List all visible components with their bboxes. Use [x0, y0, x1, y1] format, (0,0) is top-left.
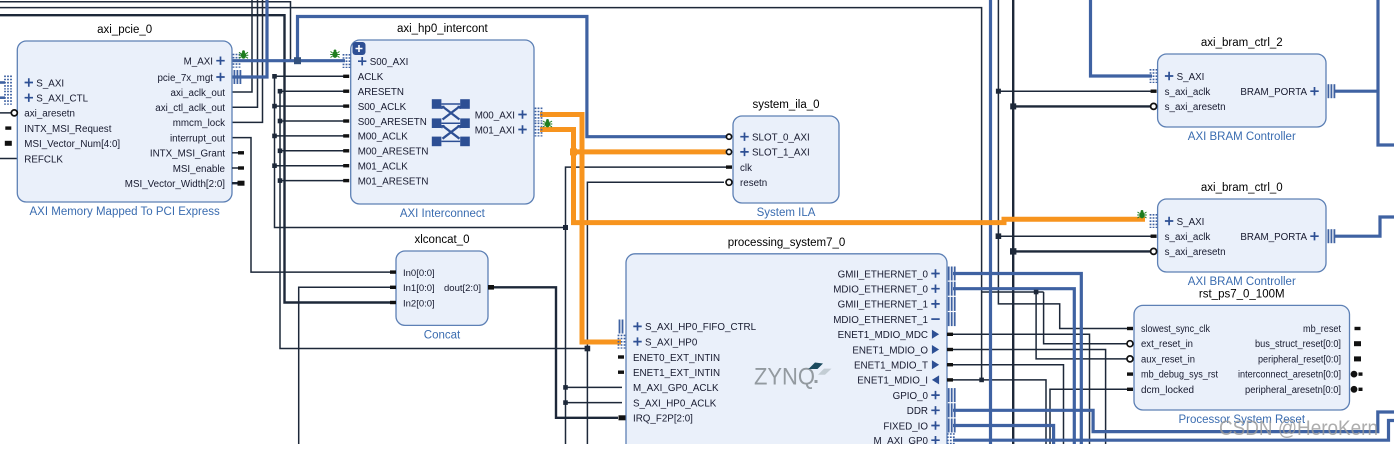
- svg-text:INTX_MSI_Request: INTX_MSI_Request: [24, 124, 111, 135]
- svg-text:In2[0:0]: In2[0:0]: [403, 298, 435, 309]
- block xlconcat_0: [396, 251, 488, 325]
- svg-text:GPIO_0: GPIO_0: [893, 391, 929, 402]
- svg-text:S00_ACLK: S00_ACLK: [358, 102, 407, 113]
- svg-text:AXI Memory Mapped To PCI Expre: AXI Memory Mapped To PCI Express: [30, 206, 220, 218]
- svg-text:S_AXI: S_AXI: [1177, 217, 1205, 228]
- svg-text:INTX_MSI_Grant: INTX_MSI_Grant: [150, 149, 225, 160]
- wire M01_AXI to SLOT_1_AXI and axi_bram_ctrl_0 S_AXI (highlighted orange): [540, 130, 1145, 223]
- svg-text:axi_hp0_intercont: axi_hp0_intercont: [397, 23, 489, 35]
- svg-text:DDR: DDR: [907, 406, 928, 417]
- svg-text:s_axi_aresetn: s_axi_aresetn: [1165, 102, 1226, 113]
- svg-text:resetn: resetn: [740, 178, 767, 189]
- crossbar icon: [432, 99, 442, 109]
- svg-text:M_AXI: M_AXI: [184, 57, 213, 68]
- svg-text:ARESETN: ARESETN: [358, 87, 404, 98]
- wire M00_AXI to S_AXI_HP0 (highlighted orange): [540, 115, 621, 343]
- svg-text:In1[0:0]: In1[0:0]: [403, 283, 435, 294]
- svg-text:SLOT_0_AXI: SLOT_0_AXI: [752, 133, 810, 144]
- svg-text:mmcm_lock: mmcm_lock: [173, 118, 225, 129]
- svg-text:M00_ACLK: M00_ACLK: [358, 132, 409, 143]
- wire M_AXI to S00_AXI and SLOT_0_AXI (interface): [232, 59, 345, 62]
- pin markers system_ila_0: [726, 134, 731, 139]
- svg-text:processing_system7_0: processing_system7_0: [728, 237, 846, 249]
- interface hatch pcie_7x_mgt: [234, 70, 236, 84]
- svg-text:M01_AXI: M01_AXI: [475, 125, 515, 136]
- junction dot MDIO_I net: [979, 378, 984, 383]
- block axi_pcie_0: [17, 41, 232, 202]
- svg-text:AXI BRAM Controller: AXI BRAM Controller: [1188, 276, 1296, 288]
- svg-text:clk: clk: [740, 163, 752, 174]
- wire S_AXI left edge (interface): [0, 81, 5, 84]
- svg-text:BRAM_PORTA: BRAM_PORTA: [1240, 232, 1307, 243]
- svg-text:M00_AXI: M00_AXI: [475, 110, 515, 121]
- svg-text:M01_ACLK: M01_ACLK: [358, 162, 409, 173]
- ZYNQ logo: [754, 363, 832, 391]
- pin nubs interconnect: [343, 75, 349, 78]
- svg-text:System ILA: System ILA: [757, 207, 816, 219]
- svg-text:xlconcat_0: xlconcat_0: [415, 234, 470, 246]
- wire DDR (interface): [953, 410, 1394, 431]
- svg-text:MSI_enable: MSI_enable: [173, 164, 226, 175]
- pin markers bram0: [1151, 235, 1157, 238]
- svg-text:M_AXI_GP0_ACLK: M_AXI_GP0_ACLK: [633, 383, 719, 394]
- wire pcie mmcm_lock up (thin): [232, 0, 263, 122]
- wire ENET1_MDIO_O down (thin): [953, 350, 1106, 445]
- svg-text:aux_reset_in: aux_reset_in: [1141, 354, 1195, 365]
- wire net clock distribution FCLK (thin): [275, 76, 566, 444]
- wire ENET1_MDIO_MDC down (thin): [953, 334, 1090, 444]
- wire pcie axi_aclk_out up (thin): [232, 0, 252, 92]
- wire pcie axi_ctl_aclk_out up (thin): [232, 0, 258, 107]
- svg-text:AXI Interconnect: AXI Interconnect: [400, 208, 486, 220]
- svg-text:ext_reset_in: ext_reset_in: [1141, 339, 1193, 350]
- svg-text:S_AXI_HP0: S_AXI_HP0: [645, 337, 698, 348]
- svg-text:MDIO_ETHERNET_0: MDIO_ETHERNET_0: [833, 285, 928, 296]
- svg-text:M_AXI_GP0: M_AXI_GP0: [874, 436, 929, 444]
- block rst_ps7_0_100M: [1134, 305, 1350, 410]
- wire net peripheral_aresetn distribution (vector): [1012, 0, 1014, 444]
- svg-text:axi_aresetn: axi_aresetn: [24, 109, 75, 120]
- block axi_bram_ctrl_0: [1158, 199, 1326, 272]
- wire BRAM_PORTA ctrl2 (interface): [1334, 90, 1378, 93]
- wire pcie interrupt_out to xlconcat In0 (thin): [232, 138, 392, 273]
- svg-text:BRAM_PORTA: BRAM_PORTA: [1240, 87, 1307, 98]
- svg-text:peripheral_aresetn[0:0]: peripheral_aresetn[0:0]: [1245, 385, 1341, 396]
- block processing_system7_0: [626, 254, 947, 449]
- hatches ZYNQ right interfaces: [948, 267, 950, 281]
- svg-text:S_AXI_CTL: S_AXI_CTL: [36, 94, 88, 105]
- svg-text:ACLK: ACLK: [358, 72, 384, 83]
- wire M_AXI_GP0 (interface): [953, 421, 1394, 441]
- svg-text:system_ila_0: system_ila_0: [752, 99, 819, 111]
- svg-text:MDIO_ETHERNET_1: MDIO_ETHERNET_1: [833, 315, 928, 326]
- wire REFCLK stub to left edge (thin): [0, 158, 24, 160]
- wire net top line 1 (thin): [0, 2, 291, 61]
- svg-text:GMII_ETHERNET_1: GMII_ETHERNET_1: [838, 300, 928, 311]
- wire FIXED_IO (interface): [953, 426, 1054, 445]
- svg-text:axi_pcie_0: axi_pcie_0: [97, 24, 152, 36]
- junction dots clock net: [272, 74, 277, 79]
- wire net reset distribution aresetn (thin): [280, 91, 587, 444]
- svg-text:axi_bram_ctrl_0: axi_bram_ctrl_0: [1201, 182, 1283, 194]
- block system_ila_0: [733, 116, 839, 203]
- pin markers ps7: [620, 320, 623, 334]
- svg-text:slowest_sync_clk: slowest_sync_clk: [1141, 324, 1211, 335]
- svg-text:S_AXI_HP0_FIFO_CTRL: S_AXI_HP0_FIFO_CTRL: [645, 322, 757, 333]
- wire net top line to ENET1_MDIO_I (thin): [0, 8, 982, 380]
- svg-text:Concat: Concat: [424, 329, 461, 341]
- wire pcie_7x_mgt up (interface): [232, 0, 267, 77]
- svg-text:AXI BRAM Controller: AXI BRAM Controller: [1188, 131, 1296, 143]
- svg-text:M01_ARESETN: M01_ARESETN: [358, 176, 429, 187]
- junction dots bram aclk net: [996, 89, 1001, 94]
- svg-text:GMII_ETHERNET_0: GMII_ETHERNET_0: [838, 269, 929, 280]
- junction dots ext/aux reset net: [1034, 290, 1039, 295]
- svg-text:ENET1_MDIO_MDC: ENET1_MDIO_MDC: [838, 330, 928, 341]
- junction M_AXI branch: [294, 57, 301, 64]
- wire ENET1_MDIO_T down (thin): [953, 365, 1064, 444]
- block axi_hp0_intercont: [351, 40, 534, 204]
- svg-text:axi_ctl_aclk_out: axi_ctl_aclk_out: [155, 103, 225, 114]
- svg-text:ENET1_MDIO_O: ENET1_MDIO_O: [852, 345, 928, 356]
- svg-text:mb_reset: mb_reset: [1303, 324, 1341, 335]
- svg-text:bus_struct_reset[0:0]: bus_struct_reset[0:0]: [1255, 339, 1341, 350]
- svg-text:S_AXI_HP0_ACLK: S_AXI_HP0_ACLK: [633, 398, 717, 409]
- wire axi_aresetn to left edge (thin): [0, 112, 21, 114]
- wire to axi_bram_ctrl_2 S_AXI (interface): [1091, 0, 1153, 76]
- svg-text:dout[2:0]: dout[2:0]: [444, 283, 481, 294]
- wire vertical interface bus x990 (interface): [989, 0, 992, 444]
- pin nubs xlconcat: [390, 270, 396, 273]
- interface hatch M00_AXI M01_AXI: [535, 108, 537, 122]
- interface hatch S00_AXI: [343, 54, 345, 68]
- svg-text:MSI_Vector_Width[2:0]: MSI_Vector_Width[2:0]: [125, 179, 225, 190]
- pin markers axi_pcie_0: [11, 110, 17, 116]
- svg-text:REFCLK: REFCLK: [24, 154, 63, 165]
- svg-text:CSDN @HeroKern: CSDN @HeroKern: [1219, 417, 1378, 440]
- svg-text:ENET1_EXT_INTIN: ENET1_EXT_INTIN: [633, 368, 720, 379]
- wire dcm_locked (thin): [1050, 389, 1129, 444]
- pin markers bram2: [1151, 90, 1157, 93]
- svg-text:MSI_Vector_Num[4:0]: MSI_Vector_Num[4:0]: [24, 139, 120, 150]
- pin markers rst_ps7: [1127, 327, 1133, 330]
- svg-text:peripheral_reset[0:0]: peripheral_reset[0:0]: [1258, 354, 1341, 365]
- interface hatch M_AXI: [233, 54, 235, 68]
- wire MDIO_ETHERNET_0 (interface): [953, 289, 1074, 444]
- wire xlconcat In1 from bottom (thin): [299, 287, 392, 444]
- svg-text:SLOT_1_AXI: SLOT_1_AXI: [752, 148, 810, 159]
- svg-text:axi_bram_ctrl_2: axi_bram_ctrl_2: [1201, 37, 1283, 49]
- wire net top line 3 to xlconcat In2 (vector): [0, 15, 392, 302]
- svg-text:s_axi_aclk: s_axi_aclk: [1165, 87, 1211, 98]
- svg-text:ENET1_MDIO_T: ENET1_MDIO_T: [854, 361, 928, 372]
- svg-text:S00_AXI: S00_AXI: [370, 57, 409, 68]
- expand icon: [353, 42, 366, 55]
- svg-text:In0[0:0]: In0[0:0]: [403, 268, 435, 279]
- svg-text:mb_debug_sys_rst: mb_debug_sys_rst: [1141, 370, 1218, 381]
- junction dots reset net: [278, 89, 283, 94]
- svg-text:pcie_7x_mgt: pcie_7x_mgt: [157, 73, 213, 84]
- svg-text:M00_ARESETN: M00_ARESETN: [358, 147, 429, 158]
- svg-text:IRQ_F2P[2:0]: IRQ_F2P[2:0]: [633, 414, 693, 425]
- svg-text:axi_aclk_out: axi_aclk_out: [171, 88, 226, 99]
- svg-text:rst_ps7_0_100M: rst_ps7_0_100M: [1199, 288, 1285, 300]
- svg-text:S_AXI: S_AXI: [36, 78, 64, 89]
- svg-text:FIXED_IO: FIXED_IO: [883, 421, 928, 432]
- svg-text:s_axi_aresetn: s_axi_aresetn: [1165, 247, 1226, 258]
- svg-text:dcm_locked: dcm_locked: [1141, 385, 1194, 396]
- svg-text:ENET1_MDIO_I: ENET1_MDIO_I: [857, 376, 928, 387]
- block axi_bram_ctrl_2: [1158, 54, 1326, 127]
- svg-text:S00_ARESETN: S00_ARESETN: [358, 117, 427, 128]
- wire net ext/aux reset distribution (thin): [982, 291, 1044, 293]
- svg-text:ZYNQ: ZYNQ: [754, 364, 815, 391]
- svg-text:interconnect_aresetn[0:0]: interconnect_aresetn[0:0]: [1238, 370, 1341, 381]
- svg-text:interrupt_out: interrupt_out: [170, 133, 225, 144]
- wire net bram aclk to slowest_sync_clk (thin): [998, 0, 1129, 329]
- svg-text:S_AXI: S_AXI: [1177, 72, 1205, 83]
- junction orange SLOT_1 branch: [570, 148, 577, 155]
- wire S_AXI_CTL left edge (interface): [0, 96, 5, 99]
- svg-text:s_axi_aclk: s_axi_aclk: [1165, 232, 1211, 243]
- wire BRAM_PORTA ctrl0 (interface): [1334, 217, 1394, 236]
- junction dots peripheral_aresetn net: [1010, 103, 1016, 109]
- wire GMII_ETHERNET_0 (interface): [953, 274, 1081, 445]
- wire xlconcat dout to IRQ_F2P (vector): [486, 287, 618, 418]
- svg-text:ENET0_EXT_INTIN: ENET0_EXT_INTIN: [633, 353, 720, 364]
